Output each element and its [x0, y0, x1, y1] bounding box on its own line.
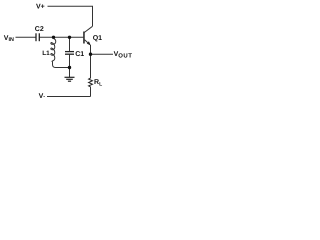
svg-text:C2: C2 — [35, 26, 44, 33]
svg-text:Q1: Q1 — [93, 35, 102, 42]
svg-text:V-: V- — [39, 93, 46, 100]
svg-text:RL: RL — [94, 79, 102, 88]
svg-text:C1: C1 — [75, 51, 84, 58]
svg-text:VOUT: VOUT — [114, 51, 133, 59]
svg-text:V+: V+ — [36, 3, 45, 10]
svg-text:L1: L1 — [42, 50, 50, 57]
svg-text:VIN: VIN — [4, 35, 14, 43]
